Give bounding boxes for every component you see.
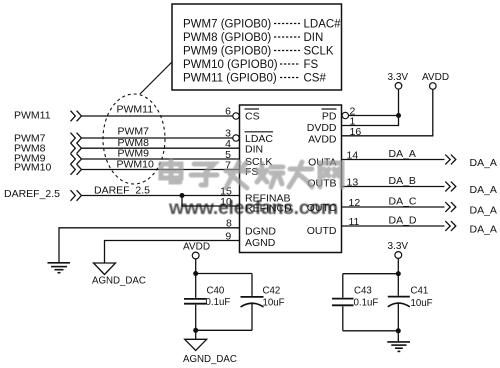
input connector chevron DAREF_2.5	[71, 190, 82, 201]
capacitor C42 10uF (polarized)	[241, 274, 264, 331]
svg-text:DVDD: DVDD	[307, 122, 337, 134]
input connector chevron PWM9	[71, 154, 82, 165]
svg-text:LDAC#: LDAC#	[304, 19, 342, 31]
wire down to AGND_DAC (middle)	[195, 330, 197, 339]
wire pin2 PD to 3.3V junction	[349, 115, 399, 117]
output chevron DA_A	[445, 155, 456, 165]
svg-text:www.elecfans.com: www.elecfans.com	[168, 197, 338, 219]
svg-text:3.3V: 3.3V	[388, 72, 409, 83]
wire pin8 DGND to earth ground	[59, 228, 240, 262]
junction dot pin2/3.3V	[396, 113, 401, 118]
wire bottom rail C40-C42	[196, 329, 252, 331]
capacitor C40 0.1uF	[184, 274, 207, 331]
svg-text:DAREF_2.5: DAREF_2.5	[94, 184, 150, 196]
svg-text:AVDD: AVDD	[308, 134, 337, 146]
svg-text:AGND: AGND	[245, 237, 276, 249]
AGND_DAC triangle symbol (left)	[94, 263, 116, 275]
svg-text:PWM11: PWM11	[117, 104, 154, 116]
pin 3 inversion bubble	[233, 135, 239, 141]
power symbol 3.3V (top)	[395, 83, 402, 90]
svg-text:DA_D: DA_D	[389, 214, 417, 226]
pin 2 inversion bubble	[342, 112, 348, 118]
svg-text:DA_A: DA_A	[470, 184, 497, 196]
junction dot bottom rail (middle)	[193, 328, 198, 333]
legend row PWM9 -> SCLK	[183, 46, 334, 58]
legend row PWM7 -> LDAC#	[183, 19, 341, 31]
capacitor C41 10uF (polarized)	[388, 274, 410, 331]
svg-text:PWM10: PWM10	[117, 159, 155, 171]
svg-text:C41: C41	[411, 285, 429, 296]
callout box (GPIO mapping legend)	[172, 4, 342, 90]
svg-text:DA_A: DA_A	[470, 157, 497, 169]
svg-text:DA_A: DA_A	[389, 148, 416, 160]
svg-text:AGND_DAC: AGND_DAC	[183, 354, 237, 365]
wire pin16 AVDD	[342, 89, 433, 136]
wire PWM10 to pin 7	[81, 169, 239, 171]
svg-text:PWM10 (GPIOB0): PWM10 (GPIOB0)	[183, 59, 278, 71]
wire PWM11 to pin 6	[81, 115, 232, 117]
junction dot 3.3V rail top	[396, 271, 401, 276]
DAC IC U? body	[240, 105, 342, 253]
wire 3.3V rail down	[397, 258, 399, 273]
svg-text:10uF: 10uF	[263, 298, 285, 309]
svg-text:0.1uF: 0.1uF	[354, 297, 379, 308]
svg-text:PWM8 (GPIOB0): PWM8 (GPIOB0)	[183, 32, 271, 44]
wire PWM8 to pin 4	[81, 147, 239, 149]
output chevron DA_B	[445, 182, 456, 192]
wire pin13 OUTB	[342, 186, 445, 188]
svg-text:6: 6	[225, 105, 231, 117]
svg-text:DGND: DGND	[245, 226, 276, 238]
input connector chevron PWM10	[71, 164, 82, 175]
svg-text:PWM9: PWM9	[118, 147, 150, 159]
svg-text:C40: C40	[207, 285, 225, 296]
svg-text:OUTD: OUTD	[307, 225, 337, 237]
dashed emphasis ellipse around PWM net names	[103, 94, 165, 184]
svg-text:3.3V: 3.3V	[388, 241, 409, 252]
junction on DAREF wire	[180, 193, 185, 198]
pin 6 inversion bubble	[233, 113, 239, 119]
svg-text:10uF: 10uF	[411, 298, 433, 309]
svg-text:AVDD: AVDD	[422, 72, 449, 83]
svg-text:DA_A: DA_A	[470, 224, 497, 236]
svg-text:DA_B: DA_B	[389, 175, 416, 187]
wire down to earth ground (right)	[397, 331, 399, 342]
wire top rail to C42	[196, 273, 252, 275]
svg-text:FS: FS	[304, 59, 319, 71]
wire pin9 AGND to AGND_DAC	[105, 241, 240, 264]
svg-text:0.1uF: 0.1uF	[206, 297, 231, 308]
earth ground (left)	[48, 263, 71, 273]
callout pointer line	[140, 62, 173, 95]
wire pin12 OUTC	[342, 206, 445, 208]
svg-text:PWM7: PWM7	[118, 126, 150, 138]
input connector chevron PWM8	[71, 143, 82, 154]
capacitor C43 0.1uF	[332, 274, 354, 331]
wire pin14 OUTA	[342, 159, 445, 161]
svg-text:DIN: DIN	[245, 144, 263, 156]
svg-text:DA_A: DA_A	[470, 205, 497, 217]
wire pin1 DVDD	[342, 89, 399, 126]
svg-text:CS#: CS#	[304, 73, 327, 85]
wire DAREF_2.5 to pin 15	[81, 195, 239, 197]
power symbol AVDD (top)	[430, 83, 437, 90]
legend row PWM10 -> FS	[183, 59, 319, 71]
legend row PWM8 -> DIN	[183, 32, 323, 44]
output chevron DA_C	[445, 202, 456, 212]
svg-text:DA_C: DA_C	[389, 195, 417, 207]
svg-text:AGND_DAC: AGND_DAC	[92, 276, 146, 287]
wire bottom rail C43-C41	[343, 330, 399, 332]
svg-text:PWM11 (GPIOB0): PWM11 (GPIOB0)	[183, 73, 277, 85]
wire top rail to C43	[343, 273, 399, 275]
junction dot bottom rail (right)	[396, 328, 401, 333]
svg-text:PWM9 (GPIOB0): PWM9 (GPIOB0)	[183, 46, 271, 58]
svg-text:PWM10: PWM10	[14, 162, 52, 174]
legend dash runs	[274, 24, 300, 78]
AGND_DAC triangle symbol (bottom)	[185, 339, 207, 350]
legend row PWM11 -> CS#	[183, 73, 326, 85]
svg-text:DAREF_2.5: DAREF_2.5	[4, 188, 60, 200]
wire pin11 OUTD	[342, 225, 445, 227]
output chevron DA_D	[445, 221, 456, 231]
input connector chevron PWM7	[71, 133, 82, 144]
input connector chevron PWM11	[71, 111, 82, 122]
svg-text:AVDD: AVDD	[183, 241, 210, 252]
svg-text:DIN: DIN	[304, 32, 324, 44]
svg-text:C43: C43	[354, 286, 372, 297]
wire PWM7 to pin 3	[81, 137, 232, 139]
earth ground (right)	[387, 342, 410, 352]
wire AVDD rail down	[195, 259, 197, 274]
svg-text:PWM11: PWM11	[14, 110, 51, 122]
wire DAREF branch to pin 10	[182, 196, 240, 207]
svg-text:PD: PD	[322, 111, 337, 123]
svg-text:CS: CS	[245, 111, 260, 123]
wire PWM9 to pin 5	[81, 158, 239, 160]
watermark: chinese characters	[161, 161, 342, 188]
svg-text:SCLK: SCLK	[304, 46, 334, 58]
svg-text:PWM7 (GPIOB0): PWM7 (GPIOB0)	[183, 19, 271, 31]
junction dot AVDD rail top	[193, 271, 198, 276]
svg-text:C42: C42	[263, 286, 281, 297]
